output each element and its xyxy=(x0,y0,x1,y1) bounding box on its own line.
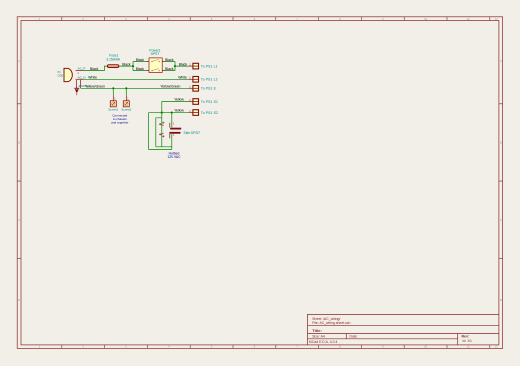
svg-text:To PS1 S1: To PS1 S1 xyxy=(201,100,218,104)
svg-text:D: D xyxy=(18,299,20,302)
P1 pin AC_N xyxy=(76,76,86,80)
svg-text:To PS1 E: To PS1 E xyxy=(201,87,217,91)
svg-text:Yellow/Green: Yellow/Green xyxy=(160,85,180,89)
svg-text:Yellow: Yellow xyxy=(174,98,184,102)
svg-text:Screw2: Screw2 xyxy=(121,107,131,111)
title block frame xyxy=(308,314,499,345)
svg-text:File: AC_wiring.sheet.sch: File: AC_wiring.sheet.sch xyxy=(312,321,350,325)
wire white row2 xyxy=(83,78,189,80)
switch Side1 DPDT contacts xyxy=(160,122,164,137)
svg-text:Side DPDT: Side DPDT xyxy=(184,131,201,135)
svg-text:CEE: CEE xyxy=(58,74,64,78)
svg-text:KiCad E.D.A. 4.0.4: KiCad E.D.A. 4.0.4 xyxy=(309,340,338,344)
connector To PS1 L1 xyxy=(189,63,218,69)
fuse Fuse1 xyxy=(107,65,118,68)
connector To PS1 S1 xyxy=(189,99,218,105)
svg-text:Black: Black xyxy=(165,67,174,71)
svg-text:Screw1: Screw1 xyxy=(108,107,118,111)
wire yellow/green row3 xyxy=(81,88,189,95)
wire DPDT loop xyxy=(149,102,172,150)
svg-text:Title:: Title: xyxy=(312,328,321,333)
svg-text:Id: 1/1: Id: 1/1 xyxy=(463,339,473,343)
screw terminal Screw2 xyxy=(121,95,131,111)
svg-text:Size: A4: Size: A4 xyxy=(312,334,325,338)
svg-text:C: C xyxy=(500,219,502,222)
wire AC_P black: IEC to fuse xyxy=(83,66,107,71)
screw terminal Screw1 xyxy=(108,95,118,111)
svg-text:Black: Black xyxy=(136,67,145,71)
svg-text:To PS1 L1: To PS1 L1 xyxy=(201,64,218,68)
connector To PS1 E xyxy=(189,86,217,92)
svg-text:Black: Black xyxy=(165,58,174,62)
svg-text:and together: and together xyxy=(111,120,128,124)
connector P1 IEC inlet body xyxy=(64,68,72,81)
P1 pin EARTH xyxy=(76,80,88,88)
chassis ground xyxy=(74,88,79,95)
svg-text:120 VAC: 120 VAC xyxy=(168,155,182,159)
svg-text:Black: Black xyxy=(179,62,188,66)
svg-text:Yellow: Yellow xyxy=(174,109,184,113)
svg-text:Date:: Date: xyxy=(350,334,358,338)
svg-text:Black: Black xyxy=(122,62,131,66)
svg-text:White: White xyxy=(178,76,187,80)
svg-text:C: C xyxy=(18,219,20,222)
wire yellow row5 xyxy=(149,112,189,114)
svg-text:Yellow/Green: Yellow/Green xyxy=(85,85,105,89)
P1 pin AC_P xyxy=(76,67,86,75)
svg-text:D: D xyxy=(500,299,502,302)
connector To PS1 L2 xyxy=(189,77,218,83)
svg-text:Black: Black xyxy=(136,58,145,62)
svg-text:White: White xyxy=(88,76,97,80)
connector To PS1 S2 xyxy=(189,110,218,116)
Side1 DPDT pin stubs xyxy=(169,123,171,138)
note hotbed text xyxy=(168,152,182,160)
svg-text:Black: Black xyxy=(90,67,99,71)
switch Power1 DPST xyxy=(147,58,165,73)
svg-text:AC_P: AC_P xyxy=(78,67,86,71)
junction dots xyxy=(112,65,176,114)
wire yellow row4 xyxy=(162,101,189,103)
wire black: fuse to junction and switch xyxy=(119,62,147,71)
svg-text:DPST: DPST xyxy=(151,52,160,56)
note chassis text xyxy=(111,113,128,124)
hotbed element plates xyxy=(169,128,181,134)
svg-text:P1: P1 xyxy=(58,70,62,74)
svg-text:To PS1 S2: To PS1 S2 xyxy=(201,111,218,115)
svg-text:3.15A/6A: 3.15A/6A xyxy=(106,58,120,62)
svg-text:To PS1 L2: To PS1 L2 xyxy=(201,78,218,82)
wire black: switch to connector row1 xyxy=(165,62,189,71)
Side1 pin numbers xyxy=(173,123,175,137)
svg-text:AC_N: AC_N xyxy=(78,76,86,80)
title block text xyxy=(309,317,472,344)
